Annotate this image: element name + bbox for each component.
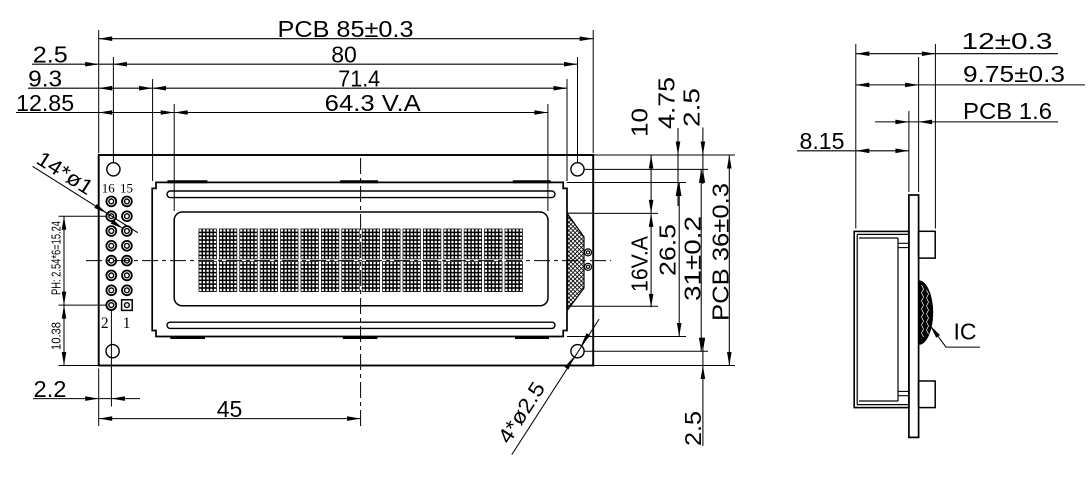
- svg-text:71.4: 71.4: [338, 66, 380, 92]
- side view top tab: [919, 231, 936, 258]
- bezel bottom tabs: [170, 336, 549, 339]
- extension lines left pins: [59, 215, 107, 217]
- mounting hole bottom-right: [571, 345, 584, 358]
- backlight terminal lower: [585, 263, 592, 270]
- dimension 2.5 top-right: [702, 128, 704, 185]
- dimension 8.15: [797, 150, 909, 152]
- svg-text:PCB 1.6: PCB 1.6: [963, 98, 1052, 124]
- pin 1 square pad: [122, 300, 133, 311]
- svg-text:26.5: 26.5: [655, 224, 681, 276]
- svg-text:45: 45: [217, 396, 243, 422]
- svg-text:15: 15: [120, 181, 133, 196]
- svg-text:10.38: 10.38: [50, 322, 64, 350]
- svg-text:16: 16: [102, 181, 116, 196]
- dimension 9.75±0.3: [856, 84, 1085, 86]
- svg-text:2.5: 2.5: [33, 42, 68, 68]
- extension lines bottom: [98, 369, 100, 427]
- leader IC: [930, 326, 980, 348]
- vertical centerline: [360, 158, 362, 428]
- dimension 31±0.2: [700, 169, 702, 351]
- dimension 12.85 / 64.3 V.A: [16, 112, 548, 114]
- mounting hole top-left: [107, 163, 120, 176]
- svg-text:PCB 85±0.3: PCB 85±0.3: [278, 16, 414, 42]
- side extension lines: [855, 44, 857, 229]
- horizontal centerline: [86, 260, 611, 262]
- dimension PH 2.54*6=15.24: [63, 216, 65, 365]
- side view bottom tab: [919, 381, 936, 408]
- svg-text:1: 1: [123, 315, 131, 332]
- svg-text:16V.A: 16V.A: [627, 235, 653, 292]
- svg-text:12.85: 12.85: [16, 90, 74, 116]
- svg-text:8.15: 8.15: [800, 128, 845, 154]
- svg-text:4.75: 4.75: [654, 77, 680, 129]
- svg-text:9.3: 9.3: [28, 66, 62, 92]
- dimension 2.5 / 80: [32, 63, 578, 65]
- svg-text:64.3 V.A: 64.3 V.A: [325, 90, 422, 116]
- LCD glass edges right of bezel: [567, 212, 593, 214]
- pin pads 16..2 and 15..1: [106, 197, 131, 311]
- svg-text:IC: IC: [954, 319, 977, 345]
- svg-text:10: 10: [627, 108, 653, 137]
- bezel top tabs: [167, 180, 550, 183]
- svg-text:2: 2: [101, 315, 109, 332]
- viewing area window: [174, 212, 548, 306]
- bezel top slot: [167, 191, 555, 198]
- svg-text:PH: 2.54*6=15.24: PH: 2.54*6=15.24: [50, 221, 64, 295]
- dimension 26.5: [678, 183, 680, 337]
- mounting hole top-right: [571, 163, 584, 176]
- svg-text:2.5: 2.5: [679, 88, 705, 127]
- svg-text:31±0.2: 31±0.2: [680, 216, 706, 301]
- side view glass: [897, 238, 899, 401]
- side view bezel: [854, 231, 909, 407]
- dimension PCB 36±0.3: [728, 155, 730, 366]
- svg-text:80: 80: [331, 42, 357, 68]
- dimension PCB 85±0.3: [99, 38, 594, 40]
- leader 4*Ø2.5: [512, 319, 599, 455]
- svg-text:2.2: 2.2: [34, 376, 67, 402]
- svg-text:12±0.3: 12±0.3: [962, 28, 1053, 54]
- dimension 45: [99, 418, 361, 420]
- LCD metal bezel outline: [152, 182, 567, 336]
- zebra connector hatch: [455, 205, 699, 315]
- PCB outline front view: [99, 155, 594, 366]
- bezel bottom slot: [167, 322, 555, 328]
- side view PCB: [909, 195, 919, 437]
- svg-text:9.75±0.3: 9.75±0.3: [963, 61, 1065, 87]
- svg-text:2.5: 2.5: [680, 411, 706, 446]
- dimension 2.2: [33, 398, 140, 400]
- dimension PCB 1.6: [875, 121, 1058, 123]
- svg-text:PCB 36±0.3: PCB 36±0.3: [708, 183, 734, 321]
- dimension 2.5 bottom-right: [702, 345, 704, 446]
- character matrix row 1: [199, 229, 523, 260]
- dimension 9.3 / 71.4: [28, 87, 567, 89]
- character matrix row 2: [199, 261, 523, 292]
- dimension 4.75: [677, 128, 679, 206]
- dimension 12±0.3: [856, 53, 1058, 55]
- leader 14*Ø1: [33, 166, 138, 232]
- mounting hole bottom-left: [106, 345, 119, 358]
- dimension 10 / 16V.A: [650, 155, 652, 307]
- extension lines right: [593, 154, 735, 156]
- IC bump: [919, 280, 934, 345]
- backlight terminal upper: [585, 249, 592, 256]
- extension lines top: [98, 30, 100, 153]
